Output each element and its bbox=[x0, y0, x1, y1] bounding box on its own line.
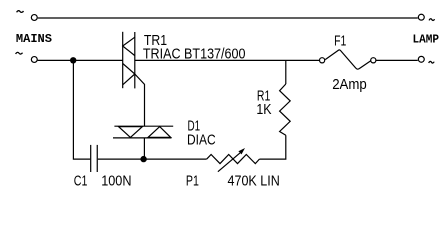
svg-text:F1: F1 bbox=[334, 34, 346, 50]
svg-text:470K LIN: 470K LIN bbox=[228, 173, 280, 189]
capacitor C1 bbox=[91, 145, 98, 172]
node ac symbol bottom right bbox=[429, 61, 434, 63]
wire main rail triac to fuse bbox=[135, 59, 320, 61]
svg-text:MAINS: MAINS bbox=[16, 32, 53, 46]
svg-text:1K: 1K bbox=[256, 102, 271, 118]
terminal mains bottom bbox=[31, 57, 37, 63]
wire diac to junction bbox=[143, 138, 145, 159]
node ac symbol top right bbox=[429, 19, 434, 21]
node junction left bbox=[70, 57, 76, 63]
triac TR1 bbox=[123, 32, 135, 89]
wire mains to triac bbox=[38, 59, 123, 61]
svg-text:DIAC: DIAC bbox=[187, 132, 216, 148]
terminal mains top bbox=[31, 15, 37, 21]
svg-text:TRIAC BT137/600: TRIAC BT137/600 bbox=[143, 47, 246, 63]
wire left branch down bbox=[73, 60, 90, 159]
svg-text:100N: 100N bbox=[101, 173, 131, 189]
terminal lamp top bbox=[418, 14, 424, 20]
wire top rail bbox=[38, 17, 418, 19]
wire P1 to R1 bbox=[259, 135, 285, 159]
svg-text:C1: C1 bbox=[74, 174, 88, 190]
wire fuse to lamp bbox=[376, 59, 418, 61]
resistor R1 bbox=[280, 60, 291, 135]
node ac symbol top left bbox=[17, 11, 24, 13]
wire C1 to P1 bbox=[98, 158, 207, 160]
node ac symbol bottom left bbox=[16, 52, 23, 54]
svg-text:2Amp: 2Amp bbox=[332, 77, 367, 93]
node junction diac bbox=[140, 156, 146, 162]
wire triac gate bbox=[135, 74, 145, 126]
diac D1 bbox=[113, 126, 173, 138]
svg-text:LAMP: LAMP bbox=[413, 33, 440, 47]
svg-text:P1: P1 bbox=[186, 174, 199, 190]
potentiometer P1 bbox=[207, 148, 260, 172]
fuse F1 bbox=[320, 50, 376, 69]
terminal lamp bottom bbox=[418, 56, 424, 62]
